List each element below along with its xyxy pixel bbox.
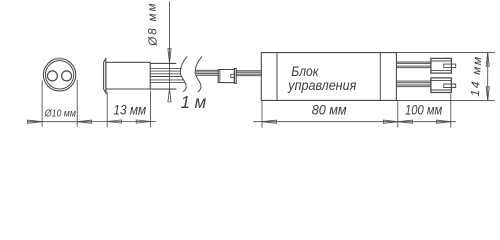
- extension line left of d10 dimension: [41, 81, 43, 127]
- bottom connector inner lines: [431, 80, 452, 90]
- wire band fills: [196, 63, 431, 86]
- dimension line 80 and 100 mm: [254, 121, 456, 123]
- bottom connector body: [431, 78, 452, 93]
- arrow left 13 mm: [107, 120, 121, 123]
- svg-text:управления: управления: [287, 77, 356, 93]
- svg-text:100 мм: 100 мм: [405, 103, 443, 118]
- cable break curve 2: [195, 57, 202, 92]
- cable sheath rectangle: [150, 63, 176, 89]
- plug notch: [231, 74, 235, 77]
- extension line right of 13 mm dimension: [150, 91, 152, 127]
- right hole circle: [62, 71, 72, 81]
- wires from block to top connector: [396, 62, 431, 68]
- arrow left d10: [28, 120, 42, 123]
- bottom connector tab: [451, 84, 455, 88]
- wire conductors inside sheath: [150, 69, 185, 83]
- extension line left of 13 mm dimension: [106, 92, 108, 127]
- wires from block to bottom connector: [396, 81, 431, 87]
- bottom extension line to 14 mm dimension: [396, 99, 494, 101]
- arrow left 80 mm: [262, 120, 276, 123]
- wires from plug to control block: [236, 71, 261, 76]
- top rim highlight: [55, 57, 63, 60]
- top connector body: [431, 58, 452, 73]
- extension line right of d10 dimension: [76, 81, 78, 127]
- svg-text:14 мм: 14 мм: [468, 57, 484, 97]
- control block body: [261, 53, 396, 101]
- arrow right 80 mm: [383, 120, 397, 123]
- front view inner circle: [45, 61, 73, 89]
- control block left cap line: [276, 53, 278, 101]
- arrow up 14 mm: [486, 53, 489, 67]
- left hole circle: [47, 71, 57, 81]
- plug right end plate: [234, 69, 236, 84]
- extension line right of 100 mm dimension: [450, 94, 452, 127]
- d8 arrowhead bottom: [168, 89, 171, 102]
- d8 dimension leader line: [169, 2, 171, 90]
- svg-text:Ø10 мм: Ø10 мм: [44, 109, 76, 120]
- svg-text:1 м: 1 м: [181, 92, 207, 112]
- inline plug body: [218, 70, 234, 83]
- front view outer circle (sensor face): [43, 59, 75, 91]
- sensor body rectangle (side view): [106, 62, 150, 89]
- d8 arrowhead top: [168, 49, 171, 64]
- arrow right 13 mm: [136, 120, 150, 123]
- cable break curve 1: [180, 57, 187, 92]
- bottom connector contact box: [444, 84, 452, 88]
- top connector contact box: [444, 64, 452, 68]
- arrow right 100 mm: [436, 120, 450, 123]
- dimension line 14 mm (vertical): [487, 53, 489, 101]
- sensor flange (side view front lip): [104, 58, 106, 93]
- svg-text:13 мм: 13 мм: [113, 103, 146, 118]
- svg-text:Ø8 мм: Ø8 мм: [144, 3, 160, 47]
- shared extension line between 80 and 100 mm: [397, 100, 399, 127]
- top extension line to 14 mm dimension: [396, 52, 494, 54]
- top connector inner lines: [431, 61, 452, 70]
- extension line left of 80 mm dimension: [261, 100, 263, 127]
- arrow right d10: [77, 120, 92, 123]
- arrow left 100 mm: [398, 120, 412, 123]
- arrow down 14 mm: [486, 87, 489, 101]
- control block right cap line: [379, 53, 381, 101]
- dimension line 13 mm: [93, 121, 156, 123]
- dimension line d10: [27, 121, 92, 123]
- top connector tab: [451, 64, 455, 68]
- svg-text:80 мм: 80 мм: [312, 103, 347, 118]
- wires from break to plug: [196, 70, 219, 75]
- plug left inner line: [219, 70, 221, 83]
